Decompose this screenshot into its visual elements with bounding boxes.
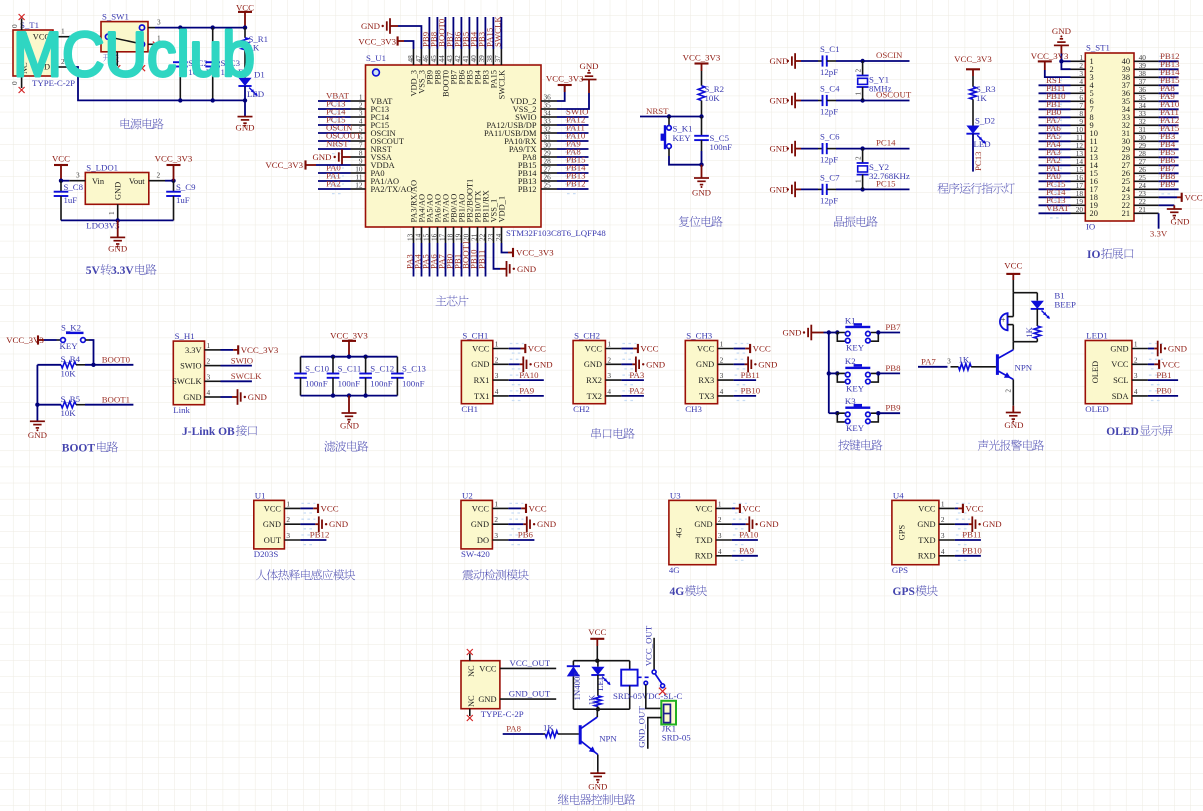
pin 29 wire [541,149,589,162]
svg-text:GND: GND [584,360,602,369]
svg-text:SRD-05VDC-SL-C: SRD-05VDC-SL-C [613,691,683,701]
svg-text:GND: GND [329,519,348,529]
svg-text:VCC: VCC [264,504,282,513]
svg-text:BOOT1: BOOT1 [102,394,130,404]
svg-text:4G: 4G [670,586,685,598]
svg-text:SWIO: SWIO [180,362,201,371]
wire to PB10 [955,555,981,557]
svg-text:S_C6: S_C6 [820,132,840,142]
svg-text:32.768KHz: 32.768KHz [869,171,910,181]
net label PB8 [429,31,439,47]
LED D1 [238,70,264,100]
svg-text:1uF: 1uF [176,195,190,205]
svg-text:4: 4 [718,547,722,556]
svg-text:VCC_3V3: VCC_3V3 [954,54,992,64]
pin 16 wire [429,227,438,277]
capacitor S_C10 100nF [294,357,329,396]
wire S_T1 pin2 bottom rail [53,57,245,103]
svg-text:S_C8: S_C8 [64,182,84,192]
svg-text:PA2: PA2 [629,386,644,396]
net label PA3 [405,254,415,269]
svg-text:GND: GND [478,695,496,704]
svg-text:1: 1 [494,499,498,508]
svg-text:PA3: PA3 [629,370,644,380]
header pin 22 wire [1134,197,1159,206]
svg-text:GND_OUT: GND_OUT [509,689,551,699]
resistor S_R5 10K [37,394,133,418]
svg-text:GND: GND [983,519,1002,529]
title vibration module [462,570,473,581]
pin 26 wire [541,173,589,186]
wire to PA9 [509,395,544,397]
buzzer B1 BEEP [1000,290,1076,341]
svg-text:S_D2: S_D2 [975,115,995,125]
svg-text:S_C9: S_C9 [176,182,196,192]
power port VCC [1004,260,1022,292]
pin 46 wire [421,17,430,65]
svg-text:TXD: TXD [695,536,712,545]
ground [692,165,711,198]
pushbutton S_K2 KEY [57,322,90,351]
pin 43 wire [445,17,454,65]
capacitor S_C7 12pF [801,172,840,205]
svg-text:S_R4: S_R4 [61,354,81,364]
svg-text:VCC: VCC [918,504,936,513]
svg-text:CH1: CH1 [461,404,478,414]
header pin 15 wire [1039,165,1086,178]
wire bottom rail [61,218,174,222]
svg-text:TYPE-C-2P: TYPE-C-2P [481,709,524,719]
wire VCC_OUT to relay common [653,638,655,670]
pin 2 GND [917,515,970,529]
net label PA2 [1046,155,1061,165]
net label PB15 [1160,75,1180,85]
svg-text:SWCLK: SWCLK [498,70,507,99]
header pin 39 wire [1134,61,1179,74]
title PIR module [256,570,267,581]
header pin 24 wire [1134,181,1179,194]
relay coil [621,661,637,710]
power port VCC_3V3 at VDDA pin 9 [265,160,350,170]
pin 2 GND [471,515,524,529]
pin 3 RX2 [586,371,636,385]
svg-text:VCC: VCC [585,344,603,353]
svg-text:1: 1 [286,499,290,508]
header pin 20 wire [1039,205,1086,218]
svg-text:VCC: VCC [1111,360,1129,369]
pin 8 wire [351,149,366,158]
net label PA4 [1046,139,1061,149]
pin 7 wire [318,141,366,154]
J-Link pin names [172,346,201,402]
net label PB13 [1160,59,1180,69]
pin 28 wire [541,157,589,170]
net label PB6 [453,31,463,47]
svg-text:22: 22 [477,233,486,241]
pin 3 RX3 [698,371,748,385]
svg-text:TX3: TX3 [699,392,714,401]
pin 11 wire [318,173,366,186]
ground at VSS_3 pin 47 [361,18,423,65]
svg-text:1K: 1K [1024,326,1034,337]
svg-text:2: 2 [157,171,161,180]
resistor S_R1 1K [242,28,268,78]
wire left rail [35,365,39,422]
svg-text:OLED: OLED [1085,404,1108,414]
svg-text:1: 1 [941,499,945,508]
pin 4 RXD [918,547,970,561]
title power circuit [121,118,131,129]
pin 25 wire [541,181,589,194]
svg-text:3.3V: 3.3V [1150,229,1168,239]
svg-text:100nF: 100nF [402,379,425,389]
header pin 34 wire [1134,101,1179,114]
ground [235,117,254,133]
pushbutton K1 KEY [829,315,879,352]
wire to PC13 [972,134,974,172]
title program run indicator [937,183,948,194]
power port VCC_3V3 at VDD_1 pin 24 [494,227,554,258]
ground at S_C1 [769,53,801,69]
header pin 1 wire [1071,53,1086,62]
wire key to cap bottom [669,156,704,167]
svg-text:U2: U2 [462,490,473,500]
svg-text:12pF: 12pF [820,107,838,117]
pin 5 wire [318,125,366,138]
svg-text:OUT: OUT [264,536,281,545]
capacitor S_C2 100nF [173,28,211,101]
LED S_D2 [966,115,995,149]
ground at S_C7 [769,182,801,198]
connector S_H1 J-Link [173,331,204,415]
svg-text:1: 1 [495,340,499,349]
svg-text:NRST: NRST [326,139,349,149]
wire emitter to ground [597,755,599,772]
svg-text:LED: LED [247,89,264,99]
svg-text:BEEP: BEEP [1054,299,1076,309]
net label PA9 [566,139,581,149]
svg-text:K3: K3 [845,396,856,406]
net label PA11 [1160,107,1179,117]
pin 1 GND [1110,340,1163,354]
net label PA2 [326,179,341,189]
wire to OSCOUT [836,98,910,102]
svg-text:PA7: PA7 [921,356,936,366]
wire VCC_OUT from connector [500,667,556,669]
svg-text:GND: GND [1110,344,1128,353]
svg-text:GND: GND [534,359,553,369]
svg-text:NC: NC [467,665,476,677]
ground at header pins 1-2 [1052,26,1071,69]
pin 1 GND of LDO [107,204,118,220]
ground [621,357,665,373]
svg-text:GND: GND [1168,344,1187,354]
switch pin 1 no-connect [148,34,161,48]
svg-text:KEY: KEY [846,343,865,353]
resistor 1K base [918,354,996,370]
wire to PA9 [732,555,758,557]
svg-text:GND: GND [917,520,935,529]
wire LED to GND [243,86,247,117]
svg-text:VCC_3V3: VCC_3V3 [155,154,193,164]
svg-text:PB9: PB9 [1160,179,1176,189]
pin 1 VCC [264,499,316,513]
capacitor S_C12 100nF [359,357,394,396]
svg-text:DO: DO [477,536,489,545]
resistor 1K in alarm [1024,309,1041,342]
header pin 14 wire [1039,157,1086,170]
header pin 37 wire [1134,77,1179,90]
svg-text:TX2: TX2 [587,392,602,401]
wire to PA2 [621,395,644,397]
pin 18 wire [445,227,454,277]
svg-text:GND: GND [769,144,788,154]
svg-text:S_ST1: S_ST1 [1086,43,1110,53]
svg-text:20: 20 [1090,209,1098,218]
svg-text:PB6: PB6 [518,530,534,540]
svg-text:S_CH2: S_CH2 [574,330,600,340]
svg-text:VCC: VCC [742,504,760,514]
svg-text:1: 1 [854,179,863,183]
pin 1 VCC [585,340,637,354]
svg-text:VCC: VCC [1185,192,1203,202]
wire top rail [301,355,398,359]
header pin 25 wire [1134,173,1179,186]
net label PB12 [566,179,586,189]
pin 3 DO [477,531,524,545]
svg-text:2: 2 [607,355,611,364]
wire to PB1 [1148,379,1178,381]
pin 3 TXD [695,531,747,545]
relay switch contacts [644,670,666,695]
svg-text:1: 1 [720,340,724,349]
power port VCC_3V3 at header pin 3 [1031,51,1071,77]
pin 20 wire [461,227,470,277]
net label PB11 [477,250,487,269]
header pin 3 wire [1071,69,1086,78]
title relay control circuit [558,794,569,805]
wire to PB11 [734,379,757,381]
svg-text:GND: GND [312,152,331,162]
pin 12 wire [318,181,366,194]
net label PA3 [1046,147,1061,157]
net label PB0 [445,253,455,269]
pin 41 wire [461,17,470,65]
svg-text:TX1: TX1 [474,392,489,401]
net label PB9 [421,31,431,47]
svg-text:Vout: Vout [129,177,145,186]
svg-text:PA9: PA9 [739,546,754,556]
net label PA12 [566,115,585,125]
svg-text:12: 12 [355,181,363,190]
pin 9 wire [351,157,366,166]
svg-text:STM32F103C8T6_LQFP48: STM32F103C8T6_LQFP48 [506,228,606,238]
TYPE-C-2P top no-connect [467,649,473,661]
net label PA1 [326,171,341,181]
svg-text:4: 4 [607,387,611,396]
svg-text:PA2: PA2 [326,179,341,189]
svg-text:GND: GND [1004,420,1023,430]
svg-text:4: 4 [941,547,945,556]
svg-text:S_H1: S_H1 [175,331,195,341]
ground [508,516,556,532]
pin 38 wire [485,17,494,65]
header pin 6 wire [1039,93,1086,106]
svg-text:GND: GND [692,187,711,197]
net label PB1 [1046,99,1061,109]
svg-text:100nF: 100nF [338,379,361,389]
power port VCC [588,627,606,661]
title crystal circuit [834,216,844,227]
header pin 30 wire [1134,133,1179,146]
svg-text:PB12: PB12 [518,185,537,194]
svg-text:KEY: KEY [673,133,692,143]
svg-text:GND: GND [769,96,788,106]
wire emitter to ground [1004,379,1014,405]
svg-text:PB0: PB0 [1156,386,1172,396]
net label PB3 [477,31,487,47]
svg-text:VCC_OUT: VCC_OUT [510,658,551,668]
svg-text:S_K2: S_K2 [61,322,81,332]
net label PC13 [1046,195,1066,205]
pin 3 OUT [264,531,316,545]
wire key rail [827,333,831,414]
ground at S_C4 [769,93,801,109]
header S_ST1 40-pin IO [1085,43,1134,232]
svg-text:3: 3 [718,531,722,540]
pin 3 Vin wire [59,171,86,183]
svg-text:1K: 1K [976,93,987,103]
relay actuator dashed link [638,676,651,678]
switch bottom pins no-connect [114,52,145,71]
svg-text:U3: U3 [670,490,681,500]
pin 21 wire [469,227,478,277]
pin 37 wire [493,17,502,65]
pin 2 GND [584,355,637,369]
svg-text:VCC: VCC [753,344,771,354]
pin 10 wire [318,165,366,178]
svg-text:10K: 10K [705,93,721,103]
wire to PA10 [732,539,758,541]
regulator S_LDO1 LDO3V3 [85,163,149,231]
net label PA9 [1160,91,1175,101]
svg-text:1: 1 [607,340,611,349]
wire to PA10 [509,379,544,381]
wire to PB6 [508,539,534,541]
svg-text:OLED: OLED [1106,426,1139,438]
net label PA8 [1160,83,1175,93]
ground [300,516,348,532]
resistor 1K base relay [503,723,579,738]
svg-text:3: 3 [207,372,211,381]
power port VCC [236,2,254,27]
svg-text:NC: NC [467,695,476,707]
power port VCC_3V3 [6,335,56,345]
ground at VSS_2 pin 35 [557,61,599,109]
svg-text:2: 2 [495,355,499,364]
svg-text:VCC_3V3: VCC_3V3 [241,345,279,355]
svg-text:VCC_3V3: VCC_3V3 [516,248,554,258]
resistor 1K relay [586,675,601,709]
svg-text:VCC: VCC [695,504,713,513]
wire to PB11 [955,539,981,541]
svg-text:PA2/TX/AO: PA2/TX/AO [371,185,413,194]
svg-text:25: 25 [544,181,552,190]
svg-text:VDD_1: VDD_1 [498,196,507,223]
net label PA6 [1046,123,1061,133]
module S_CH2 (CH2) [573,330,605,414]
svg-text:RX2: RX2 [586,376,602,385]
module U2 (SW-420) [461,490,492,559]
pin 15 wire [421,227,430,277]
svg-text:GND: GND [1170,217,1189,227]
svg-text:PA8: PA8 [506,724,521,734]
transistor NPN relay [580,709,617,754]
pushbutton K2 KEY [829,356,879,393]
module U4 (GPS) [892,490,939,575]
ground [734,357,778,373]
svg-text:GND_OUT: GND_OUT [636,706,646,748]
svg-text:4: 4 [1134,387,1138,396]
connector JK1 SRD-05 [661,701,691,743]
ground for keys [782,325,831,341]
net label PA10 [566,131,586,141]
net label PB12 [1160,51,1180,61]
net label PB1 [453,254,463,269]
svg-text:GND: GND [646,359,665,369]
net label PA8 [566,147,581,157]
svg-text:3: 3 [947,357,951,366]
header pin 31 wire [1134,125,1179,138]
title filter circuit [324,441,335,452]
net label PB6 [1160,155,1176,165]
diode 1N4007 [567,661,582,710]
svg-text:12pF: 12pF [820,195,838,205]
svg-text:GND: GND [263,520,281,529]
svg-text:LED: LED [595,674,605,691]
svg-text:GND: GND [471,520,489,529]
svg-text:PC14: PC14 [876,138,896,148]
net label PB10 [1046,91,1066,101]
header pin 5 wire [1039,85,1086,98]
svg-text:1: 1 [207,341,211,350]
pin 42 wire [453,17,462,65]
svg-text:LED1: LED1 [1086,330,1108,340]
ground [509,357,553,373]
pin 4 TX1 [474,387,524,401]
ground [28,421,47,440]
ground [955,516,1002,532]
svg-text:4: 4 [495,387,499,396]
svg-text:SWCLK: SWCLK [172,377,201,386]
connector S_T1 TYPE-C-2P [13,20,75,88]
net label PC13 [326,99,346,109]
svg-text:21: 21 [1139,205,1147,214]
pin 3 TXD [918,531,970,545]
svg-text:GND: GND [28,430,47,440]
pin 2 GND [471,355,524,369]
svg-text:D1: D1 [254,70,265,80]
net label PC15 [1046,179,1066,189]
svg-text:GND: GND [235,123,254,133]
svg-text:NRST: NRST [646,106,669,116]
svg-text:VCC_3V3: VCC_3V3 [330,331,368,341]
wire S_T1 pin1 to switch [53,27,106,37]
svg-text:GND: GND [1052,26,1071,36]
svg-text:CH3: CH3 [685,404,702,414]
pin 14 wire [413,227,422,277]
svg-text:TXD: TXD [918,536,935,545]
